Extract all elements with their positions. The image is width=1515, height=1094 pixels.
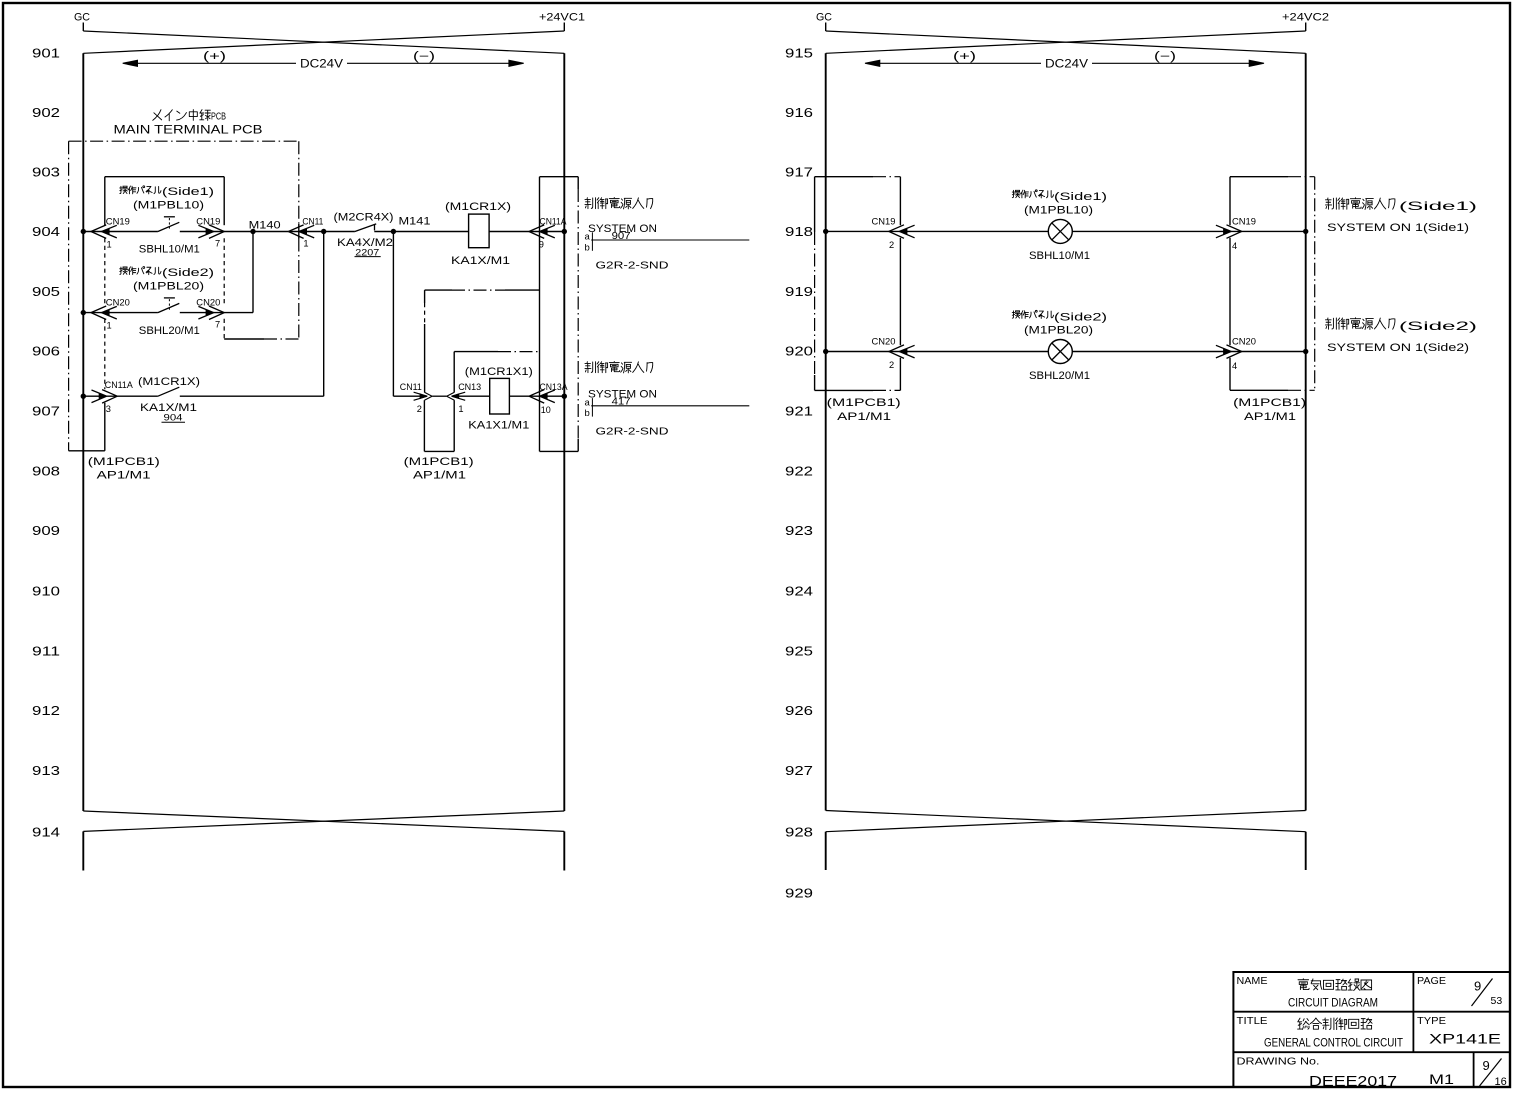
- wire GC stub bottom (right): [825, 832, 827, 870]
- svg-text:KA1X/M1: KA1X/M1: [451, 255, 510, 267]
- wire GC stub bottom (left): [82, 831, 84, 870]
- svg-text:(Side2): (Side2): [1054, 311, 1107, 323]
- junction node +24VC2 row 918: [1303, 229, 1308, 234]
- label operation panel Side1 (Japanese): [120, 186, 128, 193]
- wire +24VC2 stub: [1305, 23, 1307, 32]
- wire coil KA1X1 to CN13A: [509, 395, 564, 397]
- connector CN20 pin2 chevron: [889, 345, 915, 359]
- bus GC vertical (right section): [825, 53, 827, 810]
- svg-text:XP141E: XP141E: [1429, 1031, 1501, 1047]
- svg-text:SBHL20/M1: SBHL20/M1: [1029, 370, 1090, 382]
- svg-text:907: 907: [32, 405, 60, 419]
- connector box M1PCB1 left (right section): [814, 177, 816, 232]
- svg-text:GC: GC: [816, 12, 832, 24]
- wire crossover top left section: [83, 31, 564, 53]
- svg-text:915: 915: [785, 47, 813, 61]
- svg-text:CN11: CN11: [302, 216, 323, 226]
- svg-text:(−): (−): [1154, 51, 1176, 63]
- junction node GC bus row 918: [823, 229, 828, 234]
- svg-text:AP1/M1: AP1/M1: [97, 470, 151, 482]
- wire switch to M140: [180, 231, 289, 233]
- svg-text:(M1PBL20): (M1PBL20): [1024, 325, 1093, 337]
- label operation panel Side1 (right section): [1012, 190, 1020, 197]
- label operation panel Side2 (right section): [1012, 311, 1020, 318]
- wire +24VC2 stub bottom: [1305, 832, 1307, 870]
- svg-text:CN11: CN11: [400, 382, 422, 392]
- svg-text:910: 910: [32, 585, 60, 599]
- svg-text:(Side2): (Side2): [162, 267, 214, 279]
- svg-text:b: b: [585, 408, 590, 419]
- svg-text:907: 907: [612, 231, 631, 242]
- svg-text:CN20: CN20: [106, 297, 130, 307]
- svg-text:MAIN TERMINAL PCB: MAIN TERMINAL PCB: [114, 125, 263, 137]
- wire riser M140 row905 to row904: [252, 232, 254, 313]
- label control power on (Japanese) row907: [585, 362, 596, 373]
- label main terminal PCB (Japanese): [153, 110, 162, 121]
- label control power on (Japanese) row904: [585, 198, 596, 209]
- svg-text:+24VC2: +24VC2: [1282, 12, 1329, 24]
- svg-text:(M1PCB1): (M1PCB1): [1233, 397, 1306, 409]
- wire KA1X contact to riser: [180, 395, 324, 397]
- svg-text:(+): (+): [953, 51, 976, 63]
- svg-text:904: 904: [32, 225, 60, 239]
- svg-text:912: 912: [32, 704, 60, 718]
- svg-text:2: 2: [889, 240, 894, 250]
- svg-text:901: 901: [32, 47, 60, 61]
- lamp SBHL10/M1 (indicator): [1048, 219, 1072, 243]
- switch SBHL10/M1 pushbutton contact: [158, 222, 179, 231]
- svg-text:904: 904: [164, 412, 183, 423]
- svg-text:(M2CR4X): (M2CR4X): [334, 211, 394, 223]
- svg-text:G2R-2-SND: G2R-2-SND: [596, 425, 670, 437]
- svg-text:(M1CR1X): (M1CR1X): [138, 376, 200, 388]
- svg-text:DEEE2017: DEEE2017: [1309, 1074, 1397, 1090]
- svg-text:AP1/M1: AP1/M1: [837, 411, 891, 423]
- wire row 920 bus to lamp: [826, 351, 1049, 353]
- connector CN11A pin9 chevron: [529, 225, 555, 239]
- enclosure operation panel Side1/Side2 (left edge): [104, 177, 106, 226]
- wire CN11 to KA4X contact: [288, 231, 355, 233]
- connector CN19 pin7 chevron: [198, 225, 224, 239]
- enclosure M1PCB1 main terminal PCB (dash-dot boundary): [69, 140, 299, 142]
- wire row 907 bus to KA1X contact: [83, 395, 158, 397]
- svg-text:908: 908: [32, 465, 60, 479]
- svg-text:(Side1): (Side1): [1399, 199, 1477, 213]
- svg-text:927: 927: [785, 764, 813, 778]
- switch SBHL20/M1 pushbutton contact: [158, 303, 179, 312]
- svg-text:902: 902: [32, 106, 60, 120]
- junction node M140: [250, 229, 255, 234]
- svg-text:CN19: CN19: [872, 216, 896, 226]
- svg-text:PCB: PCB: [211, 111, 226, 123]
- wire crossover bottom right section: [826, 811, 1306, 832]
- connector CN11 pin1 chevron: [288, 225, 314, 239]
- junction node bus row 907: [562, 394, 567, 399]
- wire CN13 to coil KA1X1: [457, 395, 490, 397]
- wire +24VC1 stub bottom: [563, 831, 565, 870]
- wire M141 riser to CN11-2: [393, 395, 421, 397]
- svg-text:929: 929: [785, 887, 813, 901]
- connector CN20 pin4 chevron: [1216, 345, 1242, 359]
- connector box CN11A/CN13A (tall): [539, 177, 541, 452]
- wire jumper CN11A net to CN13 (horizontal): [425, 289, 452, 291]
- junction node on GC bus row 904: [81, 229, 86, 234]
- svg-text:a: a: [585, 397, 591, 408]
- title block frame: [1233, 972, 1510, 1086]
- svg-text:+24VC1: +24VC1: [539, 12, 585, 24]
- svg-text:PAGE: PAGE: [1417, 975, 1446, 987]
- svg-text:(Side1): (Side1): [1054, 191, 1107, 203]
- svg-text:(+): (+): [203, 51, 226, 63]
- svg-text:NAME: NAME: [1237, 975, 1268, 987]
- svg-text:AP1/M1: AP1/M1: [413, 470, 466, 482]
- svg-text:SBHL10/M1: SBHL10/M1: [139, 244, 200, 256]
- svg-text:M1: M1: [1429, 1072, 1454, 1087]
- svg-text:(M1PCB1): (M1PCB1): [404, 456, 474, 468]
- svg-text:CN11A: CN11A: [105, 380, 134, 390]
- junction node GC bus row 920: [823, 349, 828, 354]
- svg-text:922: 922: [785, 465, 813, 479]
- wire lamp to CN20 pin4: [1072, 351, 1305, 353]
- wire +24VC1 stub: [563, 23, 565, 32]
- junction node +24VC2 row 920: [1303, 349, 1308, 354]
- svg-text:4: 4: [1232, 361, 1237, 371]
- svg-text:917: 917: [785, 165, 813, 179]
- svg-text:10: 10: [541, 405, 551, 415]
- svg-text:(M1PBL10): (M1PBL10): [133, 200, 204, 212]
- wire row 918 bus to lamp: [826, 230, 1049, 232]
- junction node CN11-1 branch: [321, 229, 326, 234]
- svg-text:TYPE: TYPE: [1417, 1015, 1446, 1027]
- lamp SBHL20/M1 (indicator): [1048, 340, 1072, 364]
- svg-text:CN11A: CN11A: [540, 216, 568, 226]
- svg-text:911: 911: [32, 645, 60, 659]
- wire row 904 bus to switch: [83, 231, 158, 233]
- connector CN11A pin3 chevron: [92, 390, 118, 404]
- junction node bus row 904: [562, 229, 567, 234]
- enclosure operation panel (right edge): [223, 177, 225, 226]
- svg-text:916: 916: [785, 106, 813, 120]
- enclosure around KA1X1 (top): [454, 351, 498, 353]
- svg-text:920: 920: [785, 345, 813, 359]
- wire riser CN11-1 down to KA1X contact: [323, 232, 325, 397]
- DC24V polarity annotation (left section): [123, 60, 138, 66]
- svg-text:GENERAL CONTROL CIRCUIT: GENERAL CONTROL CIRCUIT: [1264, 1037, 1403, 1049]
- connector box M1PCB1 right (right section): [1229, 177, 1231, 226]
- svg-text:7: 7: [215, 320, 220, 330]
- svg-text:1: 1: [303, 238, 308, 248]
- svg-text:(M1PBL10): (M1PBL10): [1024, 205, 1093, 217]
- svg-text:CN20: CN20: [872, 336, 896, 346]
- svg-text:SBHL20/M1: SBHL20/M1: [139, 325, 200, 337]
- svg-text:G2R-2-SND: G2R-2-SND: [596, 260, 670, 272]
- svg-text:AP1/M1: AP1/M1: [1244, 411, 1296, 423]
- svg-text:(M1CR1X): (M1CR1X): [445, 201, 511, 213]
- svg-text:CN19: CN19: [1232, 216, 1256, 226]
- DC24V polarity annotation (right section): [865, 60, 880, 66]
- svg-text:CN13A: CN13A: [540, 382, 569, 392]
- wire riser M141 down to CN11-2: [392, 232, 394, 397]
- svg-text:4: 4: [1232, 241, 1237, 251]
- svg-text:CN13: CN13: [458, 382, 481, 392]
- svg-text:(M1PCB1): (M1PCB1): [827, 397, 901, 409]
- junction node M141: [391, 229, 396, 234]
- svg-text:(Side1): (Side1): [162, 186, 214, 198]
- connector CN13A pin10 chevron: [529, 390, 555, 404]
- svg-text:9: 9: [1474, 979, 1481, 994]
- svg-text:905: 905: [32, 285, 60, 299]
- wire GC stub (right section): [825, 23, 827, 32]
- wire coil to CN11A: [489, 231, 564, 233]
- relay contact KA4X/M2 (M2CR4X): [355, 224, 376, 232]
- label operation panel Side2 (Japanese): [120, 267, 128, 274]
- connector pair CN11-2 / CN13-1: [414, 392, 433, 400]
- bus +24VC1 vertical: [563, 53, 565, 811]
- svg-text:CN19: CN19: [196, 216, 220, 226]
- svg-text:SYSTEM ON 1(Side2): SYSTEM ON 1(Side2): [1327, 342, 1469, 354]
- svg-text:918: 918: [785, 225, 813, 239]
- svg-text:1: 1: [458, 404, 463, 414]
- svg-text:1: 1: [107, 321, 112, 331]
- svg-text:928: 928: [785, 826, 813, 840]
- svg-text:16: 16: [1495, 1076, 1507, 1088]
- svg-text:(M1PCB1): (M1PCB1): [88, 456, 160, 468]
- svg-text:2: 2: [889, 360, 894, 370]
- svg-text:53: 53: [1491, 995, 1503, 1007]
- connector CN19 pin1 chevron (left panel side1): [91, 225, 117, 239]
- wire switch to M140 riser: [180, 312, 253, 314]
- svg-text:925: 925: [785, 645, 813, 659]
- svg-text:909: 909: [32, 524, 60, 538]
- wire GC stub (left): [82, 23, 84, 32]
- svg-text:921: 921: [785, 405, 813, 419]
- svg-text:903: 903: [32, 165, 60, 179]
- svg-text:M141: M141: [399, 216, 431, 228]
- svg-text:923: 923: [785, 524, 813, 538]
- enclosure operation panel (top edge): [105, 176, 224, 178]
- svg-text:(M1PBL20): (M1PBL20): [133, 281, 204, 293]
- relay coil KA1X1/M1 (M1CR1X1): [490, 378, 510, 414]
- junction node on GC bus row 907: [81, 394, 86, 399]
- svg-text:(Side2): (Side2): [1399, 319, 1477, 333]
- wire crossover bottom left section: [83, 811, 564, 831]
- connector CN19 pin2 chevron (right section): [889, 225, 915, 239]
- svg-text:926: 926: [785, 704, 813, 718]
- svg-text:2: 2: [417, 404, 422, 414]
- svg-text:SBHL10/M1: SBHL10/M1: [1029, 250, 1090, 262]
- svg-text:(M1CR1X1): (M1CR1X1): [465, 366, 533, 378]
- svg-text:417: 417: [612, 397, 631, 408]
- relay coil KA1X/M1 (M1CR1X): [469, 214, 490, 248]
- svg-text:SYSTEM ON 1(Side1): SYSTEM ON 1(Side1): [1327, 222, 1469, 234]
- label control power on Side2 (Japanese, right): [1325, 318, 1336, 329]
- svg-text:919: 919: [785, 285, 813, 299]
- svg-text:KA1X1/M1: KA1X1/M1: [468, 419, 529, 431]
- svg-text:(−): (−): [413, 51, 435, 63]
- svg-text:CN19: CN19: [106, 216, 130, 226]
- svg-text:1: 1: [107, 239, 112, 249]
- relay contact KA1X/M1 (M1CR1X): [158, 387, 179, 396]
- connector CN20 pin7 chevron: [198, 306, 224, 320]
- svg-text:9: 9: [1483, 1058, 1490, 1073]
- svg-text:DC24V: DC24V: [300, 58, 343, 70]
- svg-text:TITLE: TITLE: [1237, 1015, 1268, 1027]
- wire KA4X to coil KA1X: [374, 231, 468, 233]
- svg-text:3: 3: [106, 404, 111, 414]
- svg-text:906: 906: [32, 345, 60, 359]
- connector CN19 pin4 chevron: [1216, 225, 1242, 239]
- svg-text:GC: GC: [74, 12, 90, 24]
- svg-text:7: 7: [215, 238, 220, 248]
- svg-text:CN20: CN20: [196, 297, 220, 307]
- junction node on GC bus row 905: [81, 310, 86, 315]
- svg-text:924: 924: [785, 585, 813, 599]
- svg-text:DRAWING No.: DRAWING No.: [1237, 1056, 1320, 1068]
- svg-text:a: a: [585, 232, 591, 243]
- svg-text:913: 913: [32, 764, 60, 778]
- svg-text:914: 914: [32, 826, 60, 840]
- svg-text:b: b: [585, 242, 590, 253]
- wire row 905 bus to switch: [83, 312, 158, 314]
- enclosure around KA1X1 (left): [453, 352, 455, 393]
- wire jumper vertical drop: [424, 290, 426, 303]
- connector pocket below CN11-2/CN13-1: [423, 400, 425, 451]
- wire lamp to CN19 pin4: [1072, 230, 1305, 232]
- wire crossover top right section: [826, 31, 1306, 53]
- label control power on Side1 (Japanese, right): [1325, 198, 1336, 209]
- bus +24VC2 vertical: [1305, 53, 1307, 810]
- svg-text:DC24V: DC24V: [1045, 58, 1088, 70]
- svg-text:CN20: CN20: [1232, 336, 1256, 346]
- connector CN20 pin1 chevron: [91, 306, 117, 320]
- bus GC vertical (left section): [82, 53, 84, 811]
- svg-text:CIRCUIT DIAGRAM: CIRCUIT DIAGRAM: [1288, 997, 1378, 1009]
